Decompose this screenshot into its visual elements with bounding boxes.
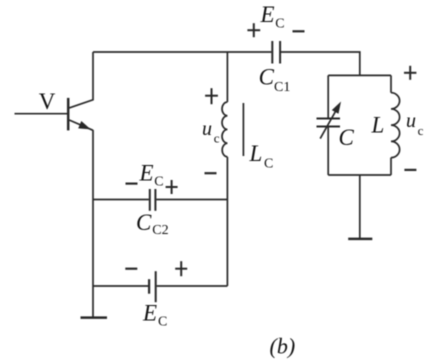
svg-text:E: E <box>142 301 157 326</box>
minus sign uc over LC <box>205 172 217 174</box>
plus sign CC2 row <box>166 180 178 194</box>
label EC middle <box>139 161 164 190</box>
transistor V emitter lead <box>69 120 93 130</box>
svg-text:C2: C2 <box>152 223 168 238</box>
battery EC long plate <box>155 271 157 302</box>
svg-text:C: C <box>275 16 284 31</box>
tank bottom edge <box>328 174 391 176</box>
svg-text:C: C <box>158 315 167 330</box>
svg-text:u: u <box>202 118 212 140</box>
plus sign uc over LC <box>205 88 218 104</box>
label uc middle <box>202 118 220 145</box>
capacitor CC2 plate left <box>149 189 151 211</box>
svg-text:C: C <box>136 210 152 235</box>
svg-text:(b): (b) <box>270 334 296 359</box>
svg-text:L: L <box>249 141 263 166</box>
plus sign tank <box>404 66 416 80</box>
capacitor CC2 plate right <box>154 189 156 211</box>
plus sign top cap <box>247 23 260 37</box>
tank right branch lower <box>390 158 392 175</box>
svg-text:L: L <box>371 113 385 138</box>
variable capacitor C plate top <box>317 118 341 120</box>
variable capacitor arrow <box>320 107 338 138</box>
tank left branch lower <box>327 127 329 175</box>
plus sign battery <box>175 261 187 276</box>
wire top rail left <box>93 51 271 53</box>
wire CC2 row left <box>93 199 149 201</box>
capacitor CC1 plate right <box>279 41 281 64</box>
svg-text:c: c <box>418 123 424 138</box>
variable capacitor arrowhead <box>332 102 341 114</box>
svg-text:E: E <box>260 2 275 27</box>
battery EC short plate <box>148 279 150 294</box>
tank left branch upper <box>327 75 329 117</box>
svg-text:C: C <box>264 157 273 172</box>
ground right bar <box>348 238 372 241</box>
svg-text:V: V <box>39 89 56 114</box>
wire top rail right <box>281 52 360 75</box>
label CC2 <box>136 210 169 238</box>
minus sign tank <box>404 169 416 171</box>
svg-text:C: C <box>259 65 275 90</box>
wire EC bottom row left <box>93 285 148 287</box>
wire middle branch lower <box>226 157 228 286</box>
tank rectangle top edge <box>328 74 391 76</box>
label LC <box>249 141 274 172</box>
label EC bottom <box>142 301 167 330</box>
inductor LC core bar <box>242 103 244 156</box>
transistor V collector lead <box>69 52 93 108</box>
inductor L coil <box>391 93 400 158</box>
ground left bar <box>81 316 108 319</box>
svg-text:u: u <box>406 110 416 132</box>
minus sign battery <box>125 268 137 270</box>
svg-text:c: c <box>214 130 220 145</box>
transistor V base bar <box>67 98 70 130</box>
svg-text:C1: C1 <box>274 80 290 95</box>
svg-text:C: C <box>339 125 355 150</box>
label EC top <box>260 2 285 32</box>
label uc tank <box>406 110 424 138</box>
tank right branch upper <box>390 75 392 92</box>
minus sign CC2 row <box>126 183 138 185</box>
variable capacitor C plate bottom <box>317 126 341 128</box>
emitter arrowhead <box>78 121 91 129</box>
svg-text:E: E <box>139 161 154 186</box>
label CC1 <box>259 65 291 96</box>
wire CC2 row right <box>156 199 227 201</box>
wire base lead <box>15 113 68 115</box>
svg-text:C: C <box>154 175 163 190</box>
wire tank to ground <box>359 175 361 239</box>
inductor LC coil <box>222 102 227 157</box>
capacitor CC1 plate left <box>271 41 273 64</box>
wire EC bottom row right <box>157 285 228 287</box>
minus sign top cap <box>293 30 305 32</box>
wire middle branch upper <box>226 52 228 102</box>
wire emitter branch down <box>92 130 94 318</box>
